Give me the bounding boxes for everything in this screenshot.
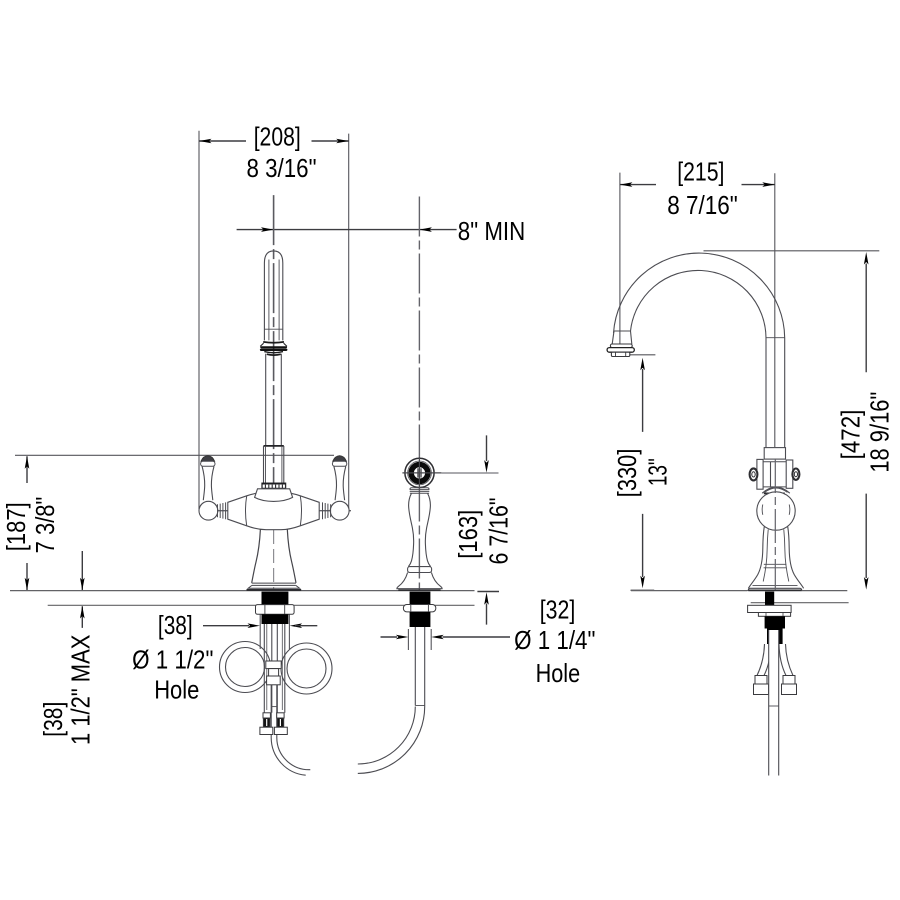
supply tube fittings right [274,713,287,735]
svg-text:8 3/16": 8 3/16" [247,153,317,183]
hose loop right [281,643,332,694]
faucet locknut front [256,605,295,615]
spout nozzle side view [607,331,634,357]
gooseneck spout side view [614,253,785,448]
svg-text:[215]: [215] [677,157,724,187]
arm rings left [218,502,226,519]
dimension 215mm spout reach (side view) [620,157,775,447]
dimension 163mm sidespray height [441,435,513,624]
dimension 187mm height [1,455,334,590]
svg-text:Hole: Hole [536,658,581,688]
hose center tube front [271,685,277,738]
bent supply tubes side view [757,644,793,676]
supply tube fittings left [260,713,273,735]
spout knurled ring front [262,483,286,488]
handle ball right [330,501,349,520]
dimension 38mm max counter thickness [38,551,95,745]
dimension 330mm spout height [612,355,673,591]
countertop side view [631,591,849,603]
centerline spout front [273,195,275,530]
body dome cap front [255,489,293,502]
handle hub side view [750,459,800,489]
sidespray shank lower (black) [410,612,431,627]
supply fittings side view [754,676,797,695]
hose fitting center front [266,661,281,685]
centerline side view [774,459,776,590]
svg-text:Ø 1 1/2": Ø 1 1/2" [132,644,213,674]
handle left lever [201,456,215,501]
shank lower side view (black) [765,616,785,644]
svg-text:[38]: [38] [38,702,68,737]
svg-text:[208]: [208] [254,121,301,151]
svg-text:[330]: [330] [612,449,642,498]
ball joint side view [757,487,795,530]
arm rings right [323,502,331,519]
base trumpet front [247,529,302,590]
svg-text:8" MIN: 8" MIN [458,216,525,246]
body barrel front [228,492,319,529]
dimension 472mm overall height [704,251,895,590]
hose arc from sidespray [358,707,425,774]
base trumpet side view [748,527,804,592]
countertop front view [10,591,475,606]
washer plate side view [748,605,792,612]
countertop shank sidespray (black) [410,592,431,605]
svg-text:7 3/8": 7 3/8" [30,497,60,554]
svg-text:[163]: [163] [453,510,483,559]
shank side view (black) [765,592,774,606]
svg-text:8 7/16": 8 7/16" [667,190,738,220]
hose arc from faucet [271,738,310,776]
svg-text:1 1/2" MAX: 1 1/2" MAX [66,635,96,745]
centerline handles front [199,510,351,512]
svg-text:13": 13" [643,458,673,486]
svg-text:[187]: [187] [1,502,31,551]
svg-text:[472]: [472] [836,410,866,460]
hose loop left [220,642,271,693]
hose tube side view [769,630,779,776]
sidespray hose tube [415,627,424,707]
svg-text:6 7/16": 6 7/16" [484,498,514,565]
pipe collar side view [764,448,785,460]
svg-text:Hole: Hole [154,675,199,705]
svg-text:18 9/16": 18 9/16" [865,392,895,473]
faucet shank front (black) [262,592,289,605]
handle right lever [332,456,346,501]
faucet shank lower front (black) [262,614,289,624]
svg-text:[38]: [38] [158,610,193,640]
svg-text:[32]: [32] [540,594,576,624]
sidespray body front [397,493,442,590]
label 32mm hole diameter [381,594,596,688]
dimension 208mm width (front view) [199,121,349,509]
spout lower tube front [264,354,284,483]
dimension 8 inch MIN spacing [237,216,526,246]
sidespray neck rings [410,488,430,494]
centerline sidespray front [418,197,420,591]
sidespray head front [402,458,441,488]
sidespray locknut [403,605,435,613]
svg-text:Ø 1 1/4": Ø 1 1/4" [514,625,595,655]
label 38mm hole diameter [132,610,317,705]
locknut side view [758,613,790,617]
spout collar rings front [260,342,287,355]
spout tube front view [264,251,282,341]
handle ball left [199,501,218,520]
supply tubes front [264,624,285,713]
